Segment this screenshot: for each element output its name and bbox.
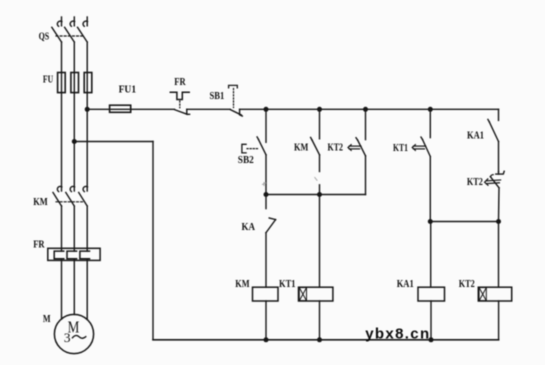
- wire KM coil to bottom rail: [265, 301, 267, 340]
- contact KT2 (NC, time delayed) branch E: [485, 171, 505, 188]
- wire L1 FU to KM: [61, 93, 63, 191]
- contactor KM main pole 3: [79, 186, 88, 206]
- wire phase L1 top: [61, 17, 63, 26]
- contactor KM main pole 1: [53, 186, 62, 206]
- svg-text:KT2: KT2: [467, 177, 483, 188]
- svg-text:QS: QS: [39, 31, 50, 42]
- svg-text:M: M: [43, 314, 51, 325]
- wire to KA1 coil: [430, 222, 432, 288]
- svg-text:KT2: KT2: [459, 279, 475, 290]
- wire L2 FU to KM: [73, 93, 75, 191]
- thermal relay FR heater box: [48, 248, 100, 260]
- node junction KM coil / bottom rail: [264, 337, 269, 342]
- thermal relay FR contact symbol: [170, 92, 189, 114]
- wire L2 KM to FR: [73, 206, 75, 251]
- svg-text:KM: KM: [33, 197, 48, 208]
- svg-text:FU: FU: [43, 74, 54, 85]
- wire KT1 contact to y221 node: [429, 157, 431, 222]
- wire L1 QS to FU: [61, 42, 63, 73]
- coil KT1 (time relay): [299, 287, 333, 301]
- node junction SB2/KA branch: [264, 192, 269, 197]
- coil KM: [253, 287, 279, 301]
- FR heater element pole 2: [67, 251, 77, 259]
- svg-text:KA: KA: [242, 222, 256, 233]
- wire KM aux lower (with gap): [319, 155, 321, 195]
- switch QS linkage dashed: [56, 35, 84, 37]
- pushbutton SB2 (NO): [242, 137, 266, 155]
- svg-text:KM: KM: [294, 143, 308, 154]
- motor M circle: [54, 314, 93, 353]
- wire L2 QS to FU: [73, 42, 75, 73]
- wire SB2 to node: [265, 155, 267, 195]
- wire KT2 branch to y194: [365, 156, 367, 195]
- wire KA to KM coil: [265, 233, 267, 288]
- contact KM auxiliary (NO): [311, 109, 320, 155]
- switch QS pole 3: [78, 21, 88, 42]
- label 3~ (inside motor): [64, 331, 86, 345]
- wire L3 KM to FR: [86, 206, 88, 251]
- node junction KA1 coil / bottom rail: [429, 337, 434, 342]
- node junction KT1 / y221: [428, 219, 433, 224]
- wire to KT1 coil: [319, 195, 321, 288]
- wire control return vertical: [152, 142, 154, 340]
- wire bottom rail: [153, 339, 499, 341]
- svg-text:FU1: FU1: [119, 85, 137, 96]
- wire KA1 to KT2 contact: [498, 142, 500, 172]
- relay contact KA (NO): [266, 195, 276, 233]
- fuse FU pole 1: [58, 73, 66, 93]
- node junction top rail / KT1 contact branch: [428, 107, 433, 112]
- contact KA1 (NO) branch E: [488, 109, 499, 141]
- svg-text:KT1: KT1: [279, 279, 296, 290]
- svg-text:KT1: KT1: [393, 143, 408, 154]
- artifact mark near SB2 node: [263, 183, 266, 186]
- node junction on L3 at control rail: [85, 107, 90, 112]
- coil KT2 (time relay): [478, 287, 511, 301]
- wire L3 FU to KM: [86, 93, 88, 191]
- pushbutton SB1 (NC): [229, 85, 243, 116]
- svg-text:ybx8.cn: ybx8.cn: [365, 326, 430, 343]
- svg-text:KT2: KT2: [328, 143, 344, 154]
- node junction KM aux / y194: [317, 192, 322, 197]
- fuse FU pole 2: [71, 73, 79, 93]
- contactor KM linkage dashed: [56, 201, 84, 203]
- wire control top rail segment B: [187, 108, 230, 110]
- wire phase L3 top: [86, 17, 88, 26]
- fuse FU1: [110, 105, 131, 112]
- wire L1 KM to FR: [61, 206, 63, 251]
- contact KT1 (NO, time delayed): [412, 109, 430, 156]
- wire control top rail segment C: [240, 108, 499, 110]
- wire KT1 coil to bottom rail: [319, 301, 321, 340]
- wire to KT2 coil: [498, 222, 500, 288]
- node junction on L2 control return: [72, 139, 77, 144]
- FR heater element pole 1: [54, 251, 64, 259]
- wire horizontal y194: [266, 194, 366, 196]
- wire L2 FR to motor: [73, 259, 75, 315]
- node junction top rail / KT2 branch: [363, 107, 368, 112]
- wire phase L2 top: [73, 17, 75, 26]
- artifact mark near KM branch gap: [315, 178, 317, 181]
- switch QS pole 1: [52, 21, 62, 42]
- wire control top rail segment A: [87, 108, 174, 110]
- wire horizontal y221: [430, 221, 498, 223]
- wire control return horizontal: [74, 141, 153, 143]
- svg-text:FR: FR: [33, 240, 45, 251]
- svg-text:KM: KM: [235, 279, 249, 290]
- svg-text:KA1: KA1: [467, 130, 484, 141]
- svg-text:SB2: SB2: [238, 155, 254, 166]
- svg-text:SB1: SB1: [210, 91, 225, 102]
- svg-text:FR: FR: [174, 77, 186, 88]
- svg-text:KA1: KA1: [397, 279, 414, 290]
- wire L3 FR to motor: [86, 259, 88, 320]
- wire KA1 coil to bottom rail: [430, 301, 432, 340]
- wire L1 FR to motor: [61, 259, 63, 319]
- contactor KM main pole 2: [66, 186, 75, 206]
- coil KA1: [418, 287, 445, 301]
- wire KT2 contact to y221 node: [498, 188, 501, 222]
- node junction top rail / SB2 branch: [264, 107, 269, 112]
- node junction KT2 branch / y221: [496, 219, 501, 224]
- svg-text:3: 3: [64, 331, 71, 345]
- contact KT2 (NC, time delayed) branch C: [348, 109, 366, 156]
- wire L3 QS to FU: [86, 42, 88, 73]
- node junction top rail / KM aux branch: [317, 107, 322, 112]
- FR heater element pole 3: [80, 251, 90, 259]
- fuse FU pole 3: [84, 73, 92, 93]
- wire KT2 coil to bottom rail: [498, 301, 500, 340]
- switch QS pole 2: [65, 21, 75, 42]
- node junction KT1 coil / bottom rail: [317, 337, 322, 342]
- wire SB2 branch upper: [265, 109, 267, 142]
